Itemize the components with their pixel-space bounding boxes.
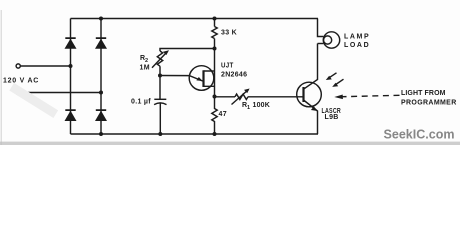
svg-text:LIGHT FROM: LIGHT FROM <box>401 90 446 97</box>
arrow R1 wiper <box>232 90 249 105</box>
svg-text:120 V AC: 120 V AC <box>3 78 39 85</box>
svg-text:33 K: 33 K <box>221 30 237 37</box>
dashed arrow light from programmer <box>342 95 400 96</box>
junction bottom rail capacitor <box>158 132 162 136</box>
AC terminal bottom circle <box>16 90 20 94</box>
svg-text:0.1 µf: 0.1 µf <box>131 99 151 106</box>
junction bottom rail right column <box>99 132 103 136</box>
wire lamp bottom lead <box>318 43 324 45</box>
scan artifact left edge <box>1 10 2 145</box>
wire AC terminal bottom lead <box>21 92 102 94</box>
svg-text:100K: 100K <box>253 102 271 109</box>
scan artifact bottom band <box>0 142 460 145</box>
junction right column top <box>99 17 103 21</box>
capacitor C1 0.1uF <box>154 98 166 100</box>
wire R1 to LASCR gate <box>248 96 304 98</box>
svg-text:1M: 1M <box>140 65 150 72</box>
diode D3 bridge bottom-left <box>65 109 77 121</box>
junction 33K top <box>213 17 217 21</box>
wire LASCR anode <box>304 44 318 90</box>
wire node B1 to R1 <box>215 96 236 98</box>
svg-text:PROGRAMMER: PROGRAMMER <box>401 100 457 107</box>
junction AC bottom to right column <box>99 91 103 95</box>
svg-text:1: 1 <box>247 105 250 111</box>
wire LASCR cathode <box>304 100 318 134</box>
junction R2 bottom node <box>158 74 162 78</box>
junction 33K bottom node <box>213 47 217 51</box>
wire left bridge column <box>70 19 72 135</box>
wire emitter node to UJT <box>160 76 203 82</box>
svg-text:L9B: L9B <box>325 114 339 121</box>
wire capacitor bottom lead <box>159 103 161 134</box>
svg-text:2N2646: 2N2646 <box>221 72 247 79</box>
svg-text:LOAD: LOAD <box>344 42 370 49</box>
LASCR cathode arrowhead <box>311 106 318 111</box>
svg-text:LAMP: LAMP <box>344 34 370 41</box>
scan artifact smudge bottom-left <box>9 83 58 118</box>
svg-text:UJT: UJT <box>221 63 234 70</box>
arrow R2 wiper <box>152 52 167 67</box>
resistor 33K <box>212 27 217 39</box>
AC terminal top circle <box>16 64 20 68</box>
diode D1 bridge top-left <box>65 37 77 49</box>
wire right bridge column <box>100 19 102 135</box>
junction UJT B1 node <box>213 95 217 99</box>
wire 33K node to R2 top <box>160 39 215 52</box>
wire lamp top lead <box>318 19 324 37</box>
wire AC terminal top lead <box>21 65 71 67</box>
UJT emitter arrowhead <box>196 77 202 81</box>
svg-text:SeekIC.com: SeekIC.com <box>384 126 455 141</box>
LASCR L9B body <box>297 82 322 107</box>
diode D2 bridge top-right <box>95 37 107 49</box>
wire R2 bottom to emitter node <box>159 66 161 75</box>
light arrow 1 into LASCR <box>329 73 337 78</box>
resistor R1 100K (variable) <box>235 94 248 99</box>
junction AC top to left column <box>69 64 73 68</box>
wire top rail <box>71 18 319 20</box>
wire bottom rail <box>71 133 319 135</box>
lamp load symbol <box>323 32 339 48</box>
wire UJT base column <box>214 49 216 97</box>
svg-text:2: 2 <box>145 58 148 64</box>
wire 33K branch down to node <box>214 19 216 27</box>
light arrow 2 into LASCR <box>335 79 344 85</box>
junction bottom rail 47 <box>213 132 217 136</box>
svg-text:47: 47 <box>219 111 227 118</box>
diode D4 bridge bottom-right <box>95 109 107 121</box>
UJT U1 2N2646 body <box>189 66 214 91</box>
resistor 47 <box>212 97 217 135</box>
wire capacitor top lead <box>159 76 161 100</box>
resistor R2 1M (variable) <box>157 51 162 66</box>
